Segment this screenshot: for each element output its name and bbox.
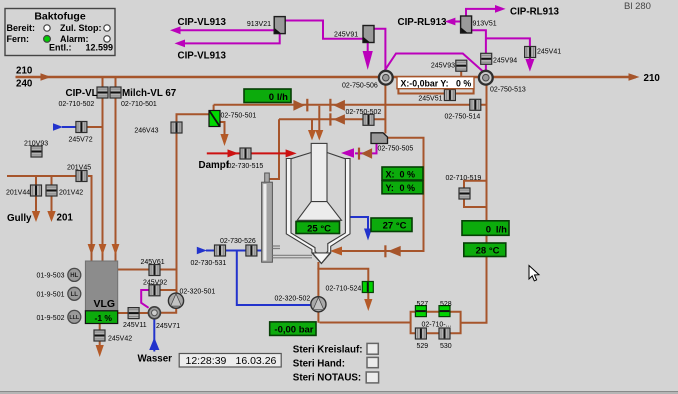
node arrow Gully bbox=[32, 211, 40, 222]
node arrow 201 bbox=[47, 211, 55, 222]
valve 02-710-524 green bbox=[362, 282, 373, 293]
svg-text:VLG: VLG bbox=[94, 298, 116, 310]
valve 245V93 bbox=[456, 60, 467, 71]
svg-text:02-320-501: 02-320-501 bbox=[180, 289, 216, 296]
node tank feed arrowheads bbox=[88, 244, 120, 255]
node magenta arrow below 245V41 bbox=[525, 59, 534, 72]
svg-text:201V42: 201V42 bbox=[59, 190, 83, 197]
svg-text:Milch-VL 67: Milch-VL 67 bbox=[122, 88, 177, 99]
wire branch to 02-710-524 bbox=[317, 269, 368, 300]
svg-text:530: 530 bbox=[440, 343, 452, 350]
valve 246V43 bbox=[171, 122, 182, 133]
valve 02-710-501 Milch-VL bbox=[110, 87, 121, 98]
node magenta arrow into vessel top bbox=[341, 148, 354, 158]
valve 02-750-514 bbox=[470, 99, 481, 110]
valve 913V51 bbox=[461, 16, 472, 33]
svg-text:201V44: 201V44 bbox=[6, 190, 30, 197]
node blue arrow down 27C bbox=[364, 229, 372, 241]
svg-text:LL: LL bbox=[71, 292, 79, 298]
flow meter 02-750-501 bbox=[209, 111, 220, 127]
wire 245V72 inlet blue bbox=[62, 126, 76, 128]
svg-text:529: 529 bbox=[416, 343, 428, 350]
wire magenta from box505 to vessel bbox=[355, 144, 377, 154]
svg-text:02-710-501: 02-710-501 bbox=[121, 101, 157, 108]
wire Milch-VL drop to valve 02-710-501 bbox=[115, 78, 117, 261]
svg-text:02-750-501: 02-750-501 bbox=[221, 113, 257, 120]
node blue arrow 245V72 bbox=[53, 123, 63, 130]
svg-text:245V51: 245V51 bbox=[418, 96, 442, 103]
svg-text:210: 210 bbox=[644, 73, 661, 84]
wire pump513 riser x486.5 bbox=[461, 85, 487, 323]
check valve lower feed bbox=[329, 113, 345, 125]
node arrow feed B bbox=[315, 130, 323, 141]
pump 02-320-501 bbox=[168, 293, 183, 308]
svg-text:210: 210 bbox=[16, 66, 33, 77]
valve 02-710-502 CIP-VL bbox=[97, 87, 108, 98]
wire centrifuge feed drop A bbox=[311, 120, 313, 131]
frame link standpipe to vessel wall bbox=[272, 246, 280, 249]
vessel top right shoulder bbox=[327, 153, 345, 159]
node arrow drain 245V42 bbox=[96, 345, 104, 357]
svg-text:-0,00 bar: -0,00 bar bbox=[274, 325, 313, 336]
svg-text:Dampf: Dampf bbox=[199, 160, 230, 171]
wire CIP-RL913 out top bbox=[466, 9, 496, 16]
svg-text:02-710-524: 02-710-524 bbox=[326, 286, 362, 293]
standpipe sight glass bbox=[262, 173, 273, 262]
display Y 0 % bbox=[382, 181, 423, 194]
wire bypass 245V51 under box bbox=[398, 89, 473, 94]
wire stub below 245V93 bbox=[460, 70, 462, 76]
svg-text:913V51: 913V51 bbox=[473, 21, 497, 28]
svg-text:Bl 280: Bl 280 bbox=[624, 1, 651, 12]
node red arrow into vessel bbox=[286, 149, 297, 157]
svg-text:02-730-515: 02-730-515 bbox=[228, 163, 264, 170]
display 27 C bbox=[371, 218, 412, 232]
tank VLG level zone bbox=[85, 311, 117, 324]
valve 245V92 bbox=[149, 285, 160, 296]
valve 527 bbox=[415, 306, 426, 317]
wire tank outlet 245V61 bbox=[118, 269, 177, 271]
valve 245V61 bbox=[149, 265, 160, 276]
svg-text:245V92: 245V92 bbox=[143, 280, 167, 287]
svg-text:CIP-VL: CIP-VL bbox=[66, 88, 98, 99]
svg-text:02-320-502: 02-320-502 bbox=[275, 296, 311, 303]
svg-text:LLL: LLL bbox=[69, 315, 80, 321]
wire pump506 drop to box505 bbox=[384, 85, 386, 134]
svg-text:01-9-503: 01-9-503 bbox=[36, 273, 64, 280]
rotary valve 245V71 bbox=[148, 307, 160, 319]
status box Baktofuge bbox=[5, 9, 115, 56]
svg-text:245V11: 245V11 bbox=[123, 322, 147, 329]
pump 02-750-513 bbox=[479, 71, 493, 85]
wire stub above 02-750-501 bbox=[214, 105, 225, 134]
wire pump502 to valve block bbox=[320, 322, 411, 324]
wire 245V71 line bbox=[118, 308, 177, 314]
svg-text:Bereit:: Bereit: bbox=[7, 23, 36, 33]
wire magenta crossover pumps bbox=[383, 54, 484, 73]
valve 02-730-526 bbox=[246, 245, 257, 256]
sensor 01-9-502 LLL bbox=[68, 310, 81, 323]
wire drain to 201 via 201V42 bbox=[51, 177, 53, 213]
display -0,00 bar bbox=[270, 322, 316, 336]
clock date box bbox=[179, 354, 281, 368]
display X 0 % bbox=[382, 167, 423, 180]
valve 201V44 bbox=[31, 185, 42, 196]
wire blue down to pump502 bbox=[237, 251, 311, 305]
centrifuge inlet column bbox=[311, 143, 327, 201]
valve 210V93 bbox=[31, 146, 42, 157]
wire magenta CIP to 245V92 bbox=[141, 290, 149, 308]
svg-text:210V93: 210V93 bbox=[24, 141, 48, 148]
svg-text:Steri Kreislauf:: Steri Kreislauf: bbox=[293, 345, 363, 356]
svg-text:245V72: 245V72 bbox=[69, 137, 93, 144]
vessel top left shoulder bbox=[291, 153, 311, 159]
valve 530 bbox=[439, 328, 450, 339]
svg-text:Y:0 %: Y:0 % bbox=[386, 183, 416, 193]
wire sterile water blue inlet bbox=[206, 250, 263, 252]
svg-text:245V71: 245V71 bbox=[156, 323, 180, 330]
svg-text:0l/h: 0l/h bbox=[269, 92, 288, 103]
node magenta arrow below 245V91 bbox=[364, 42, 372, 66]
svg-text:X:-0,0bar Y:0 %: X:-0,0bar Y:0 % bbox=[401, 79, 472, 89]
svg-text:CIP-VL913: CIP-VL913 bbox=[178, 51, 227, 62]
valve 245V51 bbox=[444, 90, 455, 101]
wire bypass 02-710-519 bbox=[464, 181, 487, 207]
svg-text:02-710-...: 02-710-... bbox=[422, 322, 452, 329]
wire CIP-VL913 return magenta bbox=[184, 34, 280, 44]
svg-text:201: 201 bbox=[57, 213, 74, 224]
svg-text:245V42: 245V42 bbox=[108, 336, 132, 343]
svg-text:02-750-514: 02-750-514 bbox=[445, 114, 481, 121]
svg-text:245V61: 245V61 bbox=[141, 259, 165, 266]
svg-text:240: 240 bbox=[16, 79, 33, 90]
display 25 C bbox=[296, 222, 340, 235]
window bottom edge bbox=[0, 392, 678, 394]
wire drain to Gully 201V44 bbox=[35, 177, 37, 213]
svg-text:Fern:: Fern: bbox=[7, 34, 30, 44]
valve 02-730-531 bbox=[215, 245, 226, 256]
wire Wasser blue bbox=[153, 319, 155, 352]
wire tank outlet 245V92 bbox=[160, 289, 177, 291]
svg-text:201V45: 201V45 bbox=[67, 165, 91, 172]
svg-text:Entl.:: Entl.: bbox=[49, 43, 72, 53]
svg-text:02-750-513: 02-750-513 bbox=[490, 87, 526, 94]
node arrow into vessel neck bbox=[330, 247, 342, 256]
checkbox Steri NOTAUS bbox=[366, 372, 378, 383]
wire cone outlet to pump502 bbox=[317, 262, 319, 323]
centrifuge bowl funnel bbox=[297, 202, 341, 221]
svg-text:HL: HL bbox=[70, 273, 78, 279]
valve 201V45 bbox=[76, 171, 87, 182]
svg-text:Steri Hand:: Steri Hand: bbox=[293, 359, 345, 370]
node arrow below 02-750-501 bbox=[220, 134, 228, 146]
wire feed line y119.3 bbox=[279, 118, 385, 120]
wire valve block loop 527-530 bbox=[411, 312, 461, 334]
svg-text:CIP-VL913: CIP-VL913 bbox=[178, 17, 227, 28]
svg-text:02-730-526: 02-730-526 bbox=[220, 238, 256, 245]
wire drain header y176 bbox=[7, 176, 92, 261]
valve 913V21 bbox=[274, 17, 285, 34]
node arrow on main line left bbox=[41, 73, 52, 81]
svg-text:02-710-519: 02-710-519 bbox=[446, 175, 482, 182]
svg-text:527: 527 bbox=[416, 301, 428, 308]
wire Dampf steam red bbox=[207, 152, 287, 154]
valve 02-710-519 bbox=[459, 188, 470, 199]
valve 245V42 bbox=[94, 330, 105, 341]
sensor 01-9-503 HL bbox=[68, 268, 81, 281]
svg-text:02-750-505: 02-750-505 bbox=[378, 146, 414, 153]
valve 245V94 bbox=[481, 53, 492, 64]
node magenta arrow CIP-VL913 top bbox=[170, 26, 181, 34]
wire tank bottom drain 245V42 bbox=[99, 324, 101, 347]
node arrow below 02-710-524 bbox=[364, 299, 372, 311]
display 28 C bbox=[464, 243, 506, 257]
svg-text:27 °C: 27 °C bbox=[383, 221, 407, 232]
svg-text:Baktofuge: Baktofuge bbox=[34, 11, 85, 23]
wire 245V72 to CIP riser bbox=[87, 126, 103, 128]
svg-text:245V41: 245V41 bbox=[537, 49, 561, 56]
node magenta arrow CIP-RL913 left bbox=[445, 18, 456, 26]
valve 529 bbox=[415, 328, 426, 339]
svg-text:02-710-502: 02-710-502 bbox=[59, 101, 95, 108]
svg-text:02-730-531: 02-730-531 bbox=[191, 260, 227, 267]
svg-text:0l/h: 0l/h bbox=[486, 224, 507, 235]
svg-text:528: 528 bbox=[440, 301, 452, 308]
checkbox Steri Hand bbox=[367, 357, 378, 367]
display 0 l/h outlet bbox=[462, 221, 509, 236]
valve 245V72 bbox=[76, 122, 87, 133]
svg-text:02-750-502: 02-750-502 bbox=[346, 109, 382, 116]
svg-text:Zul. Stop:: Zul. Stop: bbox=[60, 23, 102, 33]
svg-text:Wasser: Wasser bbox=[138, 354, 173, 365]
node arrow main line right end 210 bbox=[629, 73, 640, 81]
svg-text:28 °C: 28 °C bbox=[476, 246, 500, 257]
wire box505 to concentrate return bbox=[335, 138, 424, 251]
svg-text:25 °C: 25 °C bbox=[307, 223, 331, 234]
wire CIP-RL913 out left bbox=[455, 21, 461, 23]
check valve magenta vent bbox=[358, 148, 372, 160]
wire standpipe branch x279 bbox=[268, 119, 279, 179]
valve 201V42 bbox=[46, 185, 57, 196]
svg-text:01-9-501: 01-9-501 bbox=[36, 292, 64, 299]
pump 02-750-506 bbox=[379, 71, 393, 85]
svg-text:CIP-RL913: CIP-RL913 bbox=[398, 17, 448, 28]
node blue arrow inlet bbox=[197, 247, 207, 254]
gray box 02-750-505 bbox=[371, 133, 388, 144]
wire blue cooling out of vessel bbox=[350, 217, 368, 229]
node arrow feed A bbox=[308, 130, 316, 141]
display box X -0,0bar pressure bbox=[397, 77, 474, 89]
check valve concentrate return bbox=[384, 245, 400, 257]
svg-text:245V93: 245V93 bbox=[431, 63, 455, 70]
valve 245V91 bbox=[363, 26, 374, 43]
svg-text:245V94: 245V94 bbox=[493, 58, 517, 65]
tank VLG body bbox=[85, 261, 117, 311]
svg-text:Gully: Gully bbox=[7, 213, 32, 224]
node blue arrow Wasser up bbox=[149, 338, 159, 351]
display 0 l/h feed bbox=[244, 89, 291, 103]
svg-text:12.599: 12.599 bbox=[85, 43, 113, 53]
node magenta arrow CIP-RL913 right bbox=[495, 5, 506, 13]
vessel cone solid bbox=[312, 253, 330, 264]
node magenta arrow CIP-VL913 bottom bbox=[175, 40, 186, 48]
valve 02-750-502 bbox=[363, 114, 374, 125]
svg-text:CIP-RL913: CIP-RL913 bbox=[510, 7, 560, 18]
mouse cursor bbox=[529, 266, 539, 281]
wire CIP-VL drop to valve 02-710-502 bbox=[102, 78, 104, 261]
checkbox Steri Kreislauf bbox=[367, 343, 378, 354]
pump 02-320-502 bbox=[311, 297, 326, 312]
svg-text:02-750-506: 02-750-506 bbox=[342, 83, 378, 90]
check valve feed left bbox=[293, 99, 308, 112]
wire feed line y104.8 bbox=[214, 104, 487, 106]
svg-text:Steri NOTAUS:: Steri NOTAUS: bbox=[293, 373, 361, 384]
svg-text:01-9-502: 01-9-502 bbox=[36, 315, 64, 322]
svg-text:913V21: 913V21 bbox=[247, 21, 271, 28]
wire 913V51 down distribution bbox=[471, 30, 530, 71]
svg-text:246V43: 246V43 bbox=[134, 128, 158, 135]
wire main product line 210 y77 bbox=[16, 76, 637, 78]
svg-text:-1 %: -1 % bbox=[95, 313, 113, 323]
wire centrifuge feed drop B bbox=[318, 106, 320, 131]
svg-text:245V91: 245V91 bbox=[334, 32, 358, 39]
sensor 01-9-501 LL bbox=[68, 287, 81, 300]
node red arrow mid bbox=[228, 149, 239, 157]
frame link standpipe to vessel neck bbox=[272, 255, 312, 257]
valve 528 bbox=[439, 306, 450, 317]
vessel shell bbox=[286, 159, 350, 264]
valve 245V11 bbox=[128, 308, 139, 319]
svg-text:X:0 %: X:0 % bbox=[386, 169, 416, 179]
valve 02-730-515 bbox=[240, 148, 251, 159]
check valve feed right bbox=[329, 99, 345, 112]
wire 246V43 riser x176.5 bbox=[177, 114, 210, 294]
wire 245V91 to pump506 bbox=[372, 29, 385, 71]
wire CIP-VL913 supply magenta bbox=[180, 21, 363, 39]
valve 245V41 bbox=[525, 47, 536, 58]
